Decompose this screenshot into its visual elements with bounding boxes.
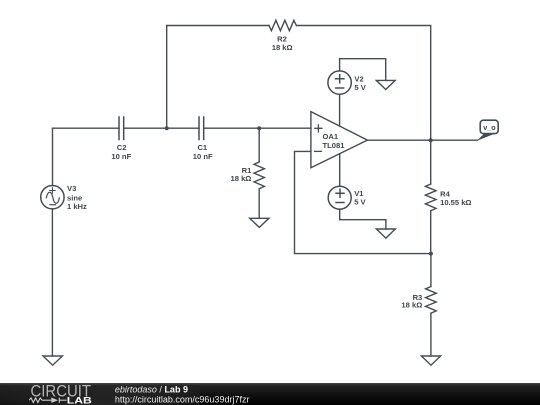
- svg-text:http://circuitlab.com/c96u39dr: http://circuitlab.com/c96u39drj7fzr: [115, 394, 250, 404]
- wire V3 bottom lead: [51, 209, 53, 356]
- svg-text:10 nF: 10 nF: [111, 152, 131, 161]
- resistor R4: [425, 184, 436, 254]
- CircuitLab logo: [29, 383, 92, 405]
- svg-text:5 V: 5 V: [354, 197, 366, 206]
- resistor R2: [269, 20, 296, 30]
- svg-text:V3: V3: [67, 184, 76, 193]
- capacitor C1: [199, 117, 204, 140]
- svg-text:10 nF: 10 nF: [193, 152, 213, 161]
- svg-text:OA1: OA1: [323, 132, 339, 141]
- wire main input net y=128: [53, 127, 120, 129]
- svg-text:v_o: v_o: [483, 123, 496, 132]
- node junction output/R4: [429, 138, 433, 142]
- op-amp U1 OA1: [311, 112, 368, 168]
- wire inverting input feedback: [295, 151, 431, 253]
- node junction at R1: [257, 126, 261, 130]
- svg-text:C1: C1: [197, 143, 207, 152]
- wire: [296, 26, 430, 185]
- wire output net: [367, 139, 477, 141]
- node junction at C1/C2: [165, 126, 169, 130]
- ground (V3): [43, 356, 62, 365]
- svg-text:5 V: 5 V: [354, 83, 366, 92]
- voltage source V1: [328, 186, 351, 209]
- ground (R3): [421, 356, 440, 365]
- svg-text:18 kΩ: 18 kΩ: [401, 300, 422, 309]
- wire V2 to op-amp V+ pin: [339, 94, 341, 126]
- svg-text:18 kΩ: 18 kΩ: [272, 43, 293, 52]
- resistor R1: [254, 128, 264, 218]
- svg-text:C2: C2: [117, 143, 127, 152]
- svg-text:18 kΩ: 18 kΩ: [231, 174, 252, 183]
- resistor R3: [426, 254, 437, 356]
- svg-text:LAB: LAB: [67, 395, 92, 405]
- wire top feedback branch: [167, 26, 269, 129]
- wire V3 top lead: [52, 128, 54, 185]
- voltage source V2: [328, 71, 351, 94]
- svg-text:10.55 kΩ: 10.55 kΩ: [440, 198, 471, 207]
- svg-text:R2: R2: [277, 34, 287, 43]
- ground (V1): [376, 229, 395, 238]
- ground (R1): [250, 218, 269, 227]
- wire op-amp V- pin to V1: [339, 154, 341, 186]
- wire V1 to ground: [340, 209, 386, 229]
- node junction R4/R3/feedback: [429, 252, 433, 256]
- ground (V2): [376, 80, 395, 89]
- svg-text:1 kHz: 1 kHz: [67, 202, 87, 211]
- voltage source V3 (sine): [41, 186, 64, 209]
- wire V2 to ground: [340, 59, 386, 81]
- capacitor C2: [119, 117, 124, 140]
- svg-text:TL081: TL081: [323, 141, 346, 150]
- net flag v_o: [477, 120, 498, 141]
- svg-text:ebirtodaso / Lab 9: ebirtodaso / Lab 9: [115, 384, 188, 394]
